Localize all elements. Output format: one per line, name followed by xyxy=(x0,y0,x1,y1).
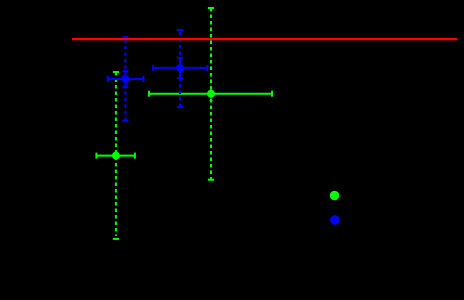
legend green marker xyxy=(330,191,340,201)
blue point B vertical error bar xyxy=(177,58,183,78)
green point D horizontal error bar xyxy=(96,153,134,159)
blue point B horizontal error bar xyxy=(153,65,207,71)
blue point B systematic error (dashed vertical) xyxy=(177,30,183,107)
green point D marker xyxy=(112,152,120,160)
green point C marker xyxy=(207,90,215,98)
green point C vertical error bar xyxy=(210,87,213,100)
green point D systematic error (dashed vertical) xyxy=(113,72,119,239)
green point C systematic error (dashed vertical) xyxy=(208,8,214,180)
legend blue marker xyxy=(330,215,340,225)
green point C horizontal error bar xyxy=(149,91,272,97)
blue point A marker xyxy=(121,75,129,83)
blue point A vertical error bar xyxy=(122,71,128,87)
blue point B marker xyxy=(176,64,184,72)
blue point A horizontal error bar xyxy=(108,76,144,82)
blue point A systematic error (dashed vertical) xyxy=(122,37,128,121)
red reference line xyxy=(72,38,457,40)
